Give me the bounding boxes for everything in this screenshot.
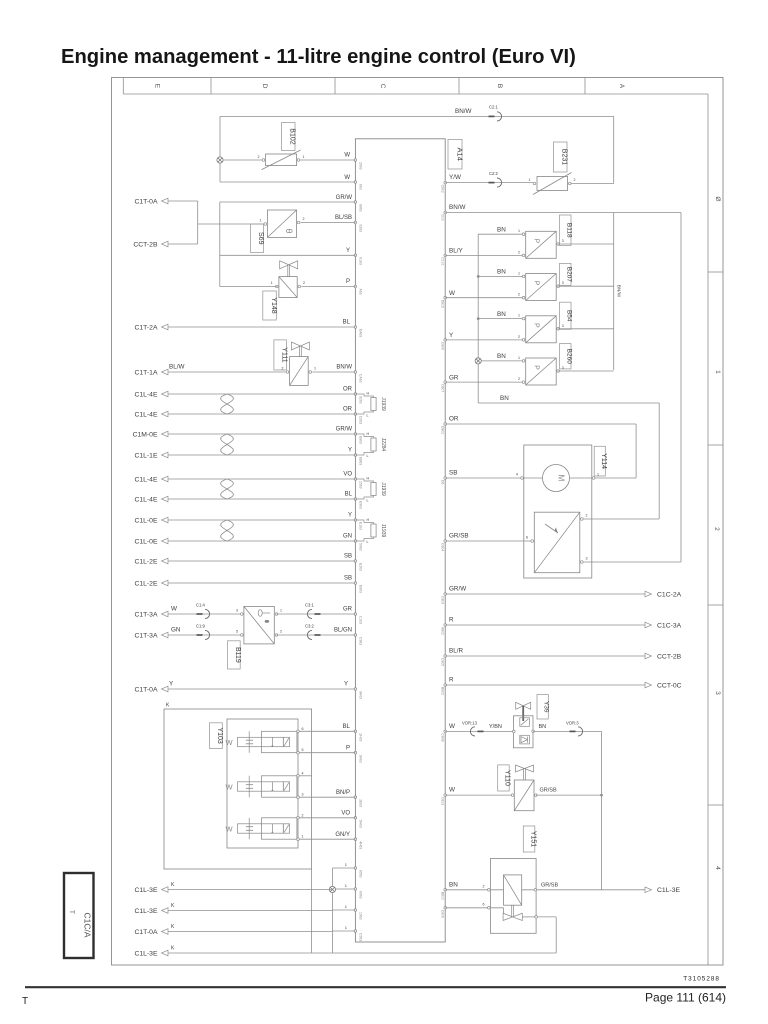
node C1L-3E arrow [162,908,169,914]
valve Y148 box [279,277,297,298]
svg-text:2: 2 [303,217,305,221]
wire Y111 to A14 BN/W [312,371,355,373]
wire BN/W drop right [680,213,682,563]
wire BN B54 [478,318,523,320]
pin 6 of Y151 [488,907,491,910]
pin 1 of B119 [275,613,278,616]
svg-text:BN/W: BN/W [616,285,622,298]
wire BN/W ground bus [445,212,681,214]
svg-text:1: 1 [314,367,316,371]
wire BL/Y B118 [445,254,523,256]
svg-text:C1L-4E: C1L-4E [134,411,158,418]
wire VO [168,478,355,480]
wire S69 to A14 BL/SB [301,222,356,224]
svg-text:C1T-1A: C1T-1A [134,370,158,377]
node C1L-2E arrow [162,558,169,564]
label B260 [560,344,572,369]
svg-text:3: 3 [302,793,304,797]
svg-text:2: 2 [586,514,588,518]
svg-text:W: W [344,153,350,159]
svg-text:A: A [618,84,625,89]
svg-text:1963: 1963 [359,912,363,920]
svg-text:E863: E863 [359,436,363,444]
svg-text:T3105288: T3105288 [683,976,720,983]
wire Y103 box drop [311,869,313,953]
wire GR B260 [445,381,523,383]
svg-text:BL/SB: BL/SB [335,215,352,221]
splice junction X2 [329,886,335,892]
svg-text:Y: Y [348,448,352,454]
svg-text:3H63: 3H63 [359,755,363,763]
wire vertical GR/W to Y148 [219,202,221,287]
wire Y103 GN/Y [299,838,355,840]
svg-text:8563: 8563 [359,870,363,878]
wire BN B118 [478,233,523,235]
pin 2 of Y151 [488,889,491,892]
node C1T-1A arrow [162,369,169,375]
wire bus stub [332,867,355,869]
wire bus stub [332,930,355,932]
pin 4 of Y151 [535,916,538,919]
svg-text:EA63: EA63 [359,329,363,337]
label B118 [560,215,572,246]
svg-text:R: R [449,617,454,624]
svg-text:M: M [557,475,566,482]
wire Y B54 [445,339,523,341]
sensor B119 box [244,606,274,644]
svg-text:GR/W: GR/W [336,195,353,201]
label Y151 [523,826,535,852]
svg-text:C802: C802 [441,185,445,193]
label Y103 [210,723,223,749]
connector C2:2 [489,182,495,184]
svg-text:C1L-0E: C1L-0E [134,538,158,545]
pin 2 of B102 [262,159,265,162]
svg-text:BN/P: BN/P [336,790,350,796]
node C1T-0A arrow 2 [162,686,169,692]
connector C1:4 [197,613,203,615]
svg-text:BL/Y: BL/Y [449,248,463,255]
svg-text:W: W [226,825,234,834]
wire Y103 BN/P [299,796,355,798]
svg-text:Y: Y [346,248,350,254]
pin 3 of B260 [557,370,560,373]
svg-text:3: 3 [562,366,564,370]
node C1L-1E arrow [162,452,169,458]
sensor supply bus BN/W [613,213,615,371]
pin 1 of B260 [522,360,525,363]
wire B118 supply stub [558,243,614,245]
svg-text:2: 2 [574,178,576,182]
wire OR [168,413,355,415]
svg-text:E163: E163 [359,522,363,530]
svg-text:9H63: 9H63 [359,691,363,699]
svg-text:P: P [346,279,350,285]
wire Y103 VO [299,817,355,819]
wire Y [168,519,355,521]
svg-text:2E63: 2E63 [359,799,363,807]
ground bus bottom left [331,868,333,953]
node C1L-0E arrow [162,517,169,523]
svg-text:Engine management - 11-litre e: Engine management - 11-litre engine cont… [61,46,576,68]
node C1M-0E arrow [162,431,169,437]
wire OR [168,393,355,395]
svg-text:2563: 2563 [359,481,363,489]
pin 5 of B119 [241,634,244,637]
wire BL to Y151 [445,907,503,909]
pin 2 of Y114 [581,518,584,521]
svg-text:C2:1: C2:1 [489,105,499,110]
wire Y151 GR/SB out [522,889,645,891]
svg-text:BN: BN [497,226,506,233]
svg-text:B: B [496,84,503,89]
label Y111 [274,340,287,370]
terminating resistor J2284 [355,434,373,438]
valve block Y103 outer box [164,709,312,869]
driver box of Y114 [534,512,580,573]
svg-text:C1L-2E: C1L-2E [134,558,158,565]
svg-text:SB: SB [344,554,352,560]
valve Y39 box [514,716,534,748]
svg-text:H: H [367,518,370,522]
svg-text:EB63: EB63 [359,457,363,465]
wire GR/W row [220,201,356,203]
svg-text:1: 1 [529,178,531,182]
svg-text:J1939: J1939 [380,524,386,538]
label S69 [251,224,264,253]
svg-text:L: L [367,414,369,418]
pin 1 of B54 [522,317,525,320]
svg-text:B231: B231 [560,149,567,165]
svg-text:D815: D815 [441,300,445,308]
svg-text:Y: Y [348,513,352,519]
svg-text:GR/W: GR/W [336,427,353,433]
pin 4 of Y114 [521,477,524,480]
svg-text:Y148: Y148 [270,297,277,313]
svg-text:θ: θ [284,228,294,233]
resistor B102 [266,154,297,166]
label B231 [554,142,568,172]
svg-text:D263: D263 [359,416,363,424]
A14 right pins and pin codes [444,181,447,184]
svg-text:GR/SB: GR/SB [541,882,558,888]
wire R to C1C-3A [445,624,645,626]
wire BL/GN from B119 [276,634,355,636]
node C1C-3A arrow [645,622,652,628]
svg-text:CCT-0C: CCT-0C [657,682,682,689]
label A14 [448,139,462,169]
svg-text:6283: 6283 [359,225,363,233]
pin 2 of B118 [522,254,525,257]
svg-text:C1L-4E: C1L-4E [134,476,158,483]
svg-text:BL: BL [343,724,351,730]
svg-text:T: T [22,996,28,1007]
pin 2 of B119 [275,634,278,637]
wire left bus S69 [197,201,199,244]
svg-text:B54: B54 [565,310,572,322]
wire K [168,931,332,933]
connector VOR:13 [470,727,475,736]
pressure sensor B54 box [526,316,557,343]
svg-text:H: H [367,432,370,436]
svg-text:C563: C563 [359,933,363,941]
label B119 [228,641,241,669]
wire BN B207 [478,275,523,277]
svg-text:1: 1 [303,155,305,159]
svg-text:GN: GN [171,627,181,634]
pin 3 of B54 [557,328,560,331]
node C1L-3E arrow right [645,887,652,893]
svg-text:D6: D6 [441,480,445,484]
svg-text:C3:1: C3:1 [305,603,315,608]
svg-text:Y151: Y151 [529,831,536,847]
svg-text:CA63: CA63 [359,374,363,383]
wire Y148 out P [220,286,277,288]
svg-text:W: W [344,175,350,181]
svg-text:GR: GR [343,607,353,613]
svg-text:6: 6 [483,902,485,906]
valve Y111 box [290,357,309,386]
pin 5 of Y151 [534,889,537,892]
motor M of Y114 [543,465,570,492]
svg-text:C1L-1E: C1L-1E [134,452,158,459]
wire B207 supply stub [558,285,614,287]
pressure sensor B118 box [526,231,557,258]
svg-text:P: P [533,323,540,328]
pin 3 of Y114 [581,561,584,564]
svg-text:4: 4 [516,473,518,477]
wire B102 row [223,159,262,161]
pin 2 of S69 [297,221,300,224]
svg-text:S69: S69 [257,232,264,245]
svg-text:1: 1 [518,314,520,318]
pin 2 of Y111 [286,371,289,374]
valve Y148 bowtie [280,261,289,269]
node C1L-4E arrow [162,476,169,482]
valve block Y103 inner box [227,719,298,848]
svg-text:L: L [367,454,369,458]
terminating resistor J1939 [355,479,373,483]
svg-text:C1C-2A: C1C-2A [657,591,682,598]
svg-text:R: R [449,677,454,684]
svg-text:VO: VO [341,811,350,817]
svg-text:3: 3 [586,557,588,561]
svg-text:2: 2 [258,155,260,159]
node C1L-3E arrow bottom [162,950,169,956]
svg-text:C1L-3E: C1L-3E [134,887,158,894]
svg-text:4: 4 [714,866,721,870]
svg-text:1: 1 [518,229,520,233]
svg-text:6863: 6863 [359,204,363,212]
node C1T-0A arrow [162,929,169,935]
pin 2 of B54 [522,339,525,342]
pin 2 of B207 [522,296,525,299]
label B207 [560,263,572,285]
terminating resistor J1939 [355,520,373,524]
svg-text:C1L-2E: C1L-2E [134,580,158,587]
svg-text:1: 1 [518,271,520,275]
svg-text:GR/W: GR/W [449,586,466,593]
wire B260 supply stub [558,370,614,372]
svg-text:CCT-2B: CCT-2B [133,242,158,249]
node CCT-2B arrow [162,241,169,247]
svg-text:OR: OR [343,387,353,393]
pin 4 of Y103 [297,775,300,778]
svg-text:5: 5 [302,748,304,752]
svg-text:1: 1 [271,281,273,285]
svg-text:P: P [533,238,540,243]
wire OR to Y114 [445,423,636,425]
svg-text:C1L-3E: C1L-3E [134,951,158,958]
valve Y110 box [514,780,534,811]
svg-text:5963: 5963 [359,543,363,551]
connector box C1C/A [64,873,94,958]
svg-text:3: 3 [562,239,564,243]
row number strip [707,94,709,965]
A14 left pins and pin codes [354,159,357,162]
svg-text:GN: GN [343,534,352,540]
svg-text:6183: 6183 [359,257,363,265]
svg-text:W: W [171,606,177,613]
svg-text:W: W [449,290,455,297]
svg-text:B118: B118 [565,223,572,238]
svg-text:A802: A802 [441,627,445,635]
node C1L-0E arrow [162,538,169,544]
svg-text:A14: A14 [455,148,464,161]
svg-text:Y111: Y111 [280,347,287,362]
wire Y110 GR/SB out [536,794,602,796]
svg-text:T: T [68,910,75,914]
wire bus stub [332,909,355,911]
svg-text:BL/W: BL/W [169,364,184,371]
frame header strip [122,78,124,95]
svg-text:L: L [367,540,369,544]
svg-text:GR/SB: GR/SB [449,533,469,540]
svg-text:Ø: Ø [714,196,721,201]
pin 1 of B231 [533,182,536,185]
svg-text:4H63: 4H63 [359,841,363,849]
svg-text:2: 2 [713,527,720,531]
svg-text:L: L [367,499,369,503]
svg-text:BL/GN: BL/GN [334,628,352,634]
wire Y/W from A14 [445,182,533,184]
wire BN B260 [478,360,523,362]
node C1C-2A arrow [645,591,652,597]
svg-text:Page 111 (614): Page 111 (614) [645,991,726,1005]
pin 2 of B260 [522,381,525,384]
wire SB [168,560,355,562]
svg-text:A63: A63 [359,289,363,295]
twisted pair [221,520,234,541]
svg-text:6963: 6963 [359,891,363,899]
svg-text:BL: BL [343,320,351,326]
pin 1 of Y110 [511,794,514,797]
svg-text:GR: GR [449,374,459,381]
svg-text:BL/R: BL/R [449,648,463,655]
svg-text:BN/W: BN/W [455,108,471,115]
svg-text:C2:2: C2:2 [489,171,499,176]
node C1L-2E arrow [162,580,169,586]
connector C3:1 [307,609,312,618]
svg-text:663: 663 [359,184,363,190]
svg-text:B207: B207 [565,267,572,283]
wire K bottom long [168,952,556,954]
svg-text:C3:2: C3:2 [305,624,315,629]
svg-text:C808: C808 [441,733,445,741]
wire SB [168,582,355,584]
svg-text:Y: Y [344,682,348,688]
svg-text:C101: C101 [441,257,445,265]
frame border [112,78,724,966]
svg-text:BN/W: BN/W [449,204,465,211]
connector C1:9 [197,634,203,636]
svg-text:C1T-0A: C1T-0A [134,929,158,936]
svg-text:C1L-4E: C1L-4E [134,391,158,398]
svg-text:BN: BN [497,269,506,276]
svg-text:BN: BN [449,881,458,888]
svg-text:OR: OR [343,407,353,413]
svg-text:B102: B102 [288,128,295,144]
pin 1 of B207 [522,275,525,278]
twisted pair [221,394,234,414]
valve Y151 inner box [504,875,522,905]
wire W to Y39 [445,730,513,732]
wire vertical at splice [219,116,221,182]
node C1L-3E arrow [162,887,169,893]
pressure sensor B260 box [526,358,557,385]
pin 1 of Y103 [297,838,300,841]
svg-text:Y103: Y103 [216,727,223,743]
svg-text:C805: C805 [441,658,445,666]
pin 6 of Y114 [531,540,534,543]
junction dot B54 [477,317,480,320]
wire BN drop [658,403,660,519]
wire R to CCT-0C [445,684,645,686]
svg-text:2: 2 [518,335,520,339]
wire Y [168,454,355,456]
wire GR from B119 [276,613,355,615]
svg-text:1: 1 [518,356,520,360]
wire GR/W [168,433,355,435]
pin 3 of Y103 [297,796,300,799]
wire BN to Y151 [445,889,503,891]
actuator Y114 outer box [524,445,592,578]
pin 1 of Y39 [513,730,516,733]
svg-text:D10: D10 [441,215,445,221]
pressure sensor B207 box [526,274,557,301]
svg-text:C1T-0A: C1T-0A [134,687,158,694]
svg-text:E663: E663 [359,585,363,593]
svg-text:1: 1 [302,835,304,839]
svg-text:5H63: 5H63 [359,820,363,828]
node C1L-4E arrow [162,411,169,417]
wire Y103 pin4 stub [299,775,311,777]
wire GN [168,540,355,542]
svg-text:B810: B810 [441,892,445,900]
svg-text:C1:9: C1:9 [196,624,206,629]
wire BN to Y114 [478,402,659,404]
svg-text:B260: B260 [565,349,572,365]
svg-text:3: 3 [236,609,238,613]
wire B54 supply stub [558,328,614,330]
connector C3:2 [307,630,312,639]
pin 2 of Y110 [535,794,538,797]
label Y39 [537,695,548,720]
svg-text:VOR:13: VOR:13 [462,721,478,726]
pin 5 of Y103 [297,751,300,754]
footer rule [25,986,726,988]
pin 1 of Y111 [309,371,312,374]
